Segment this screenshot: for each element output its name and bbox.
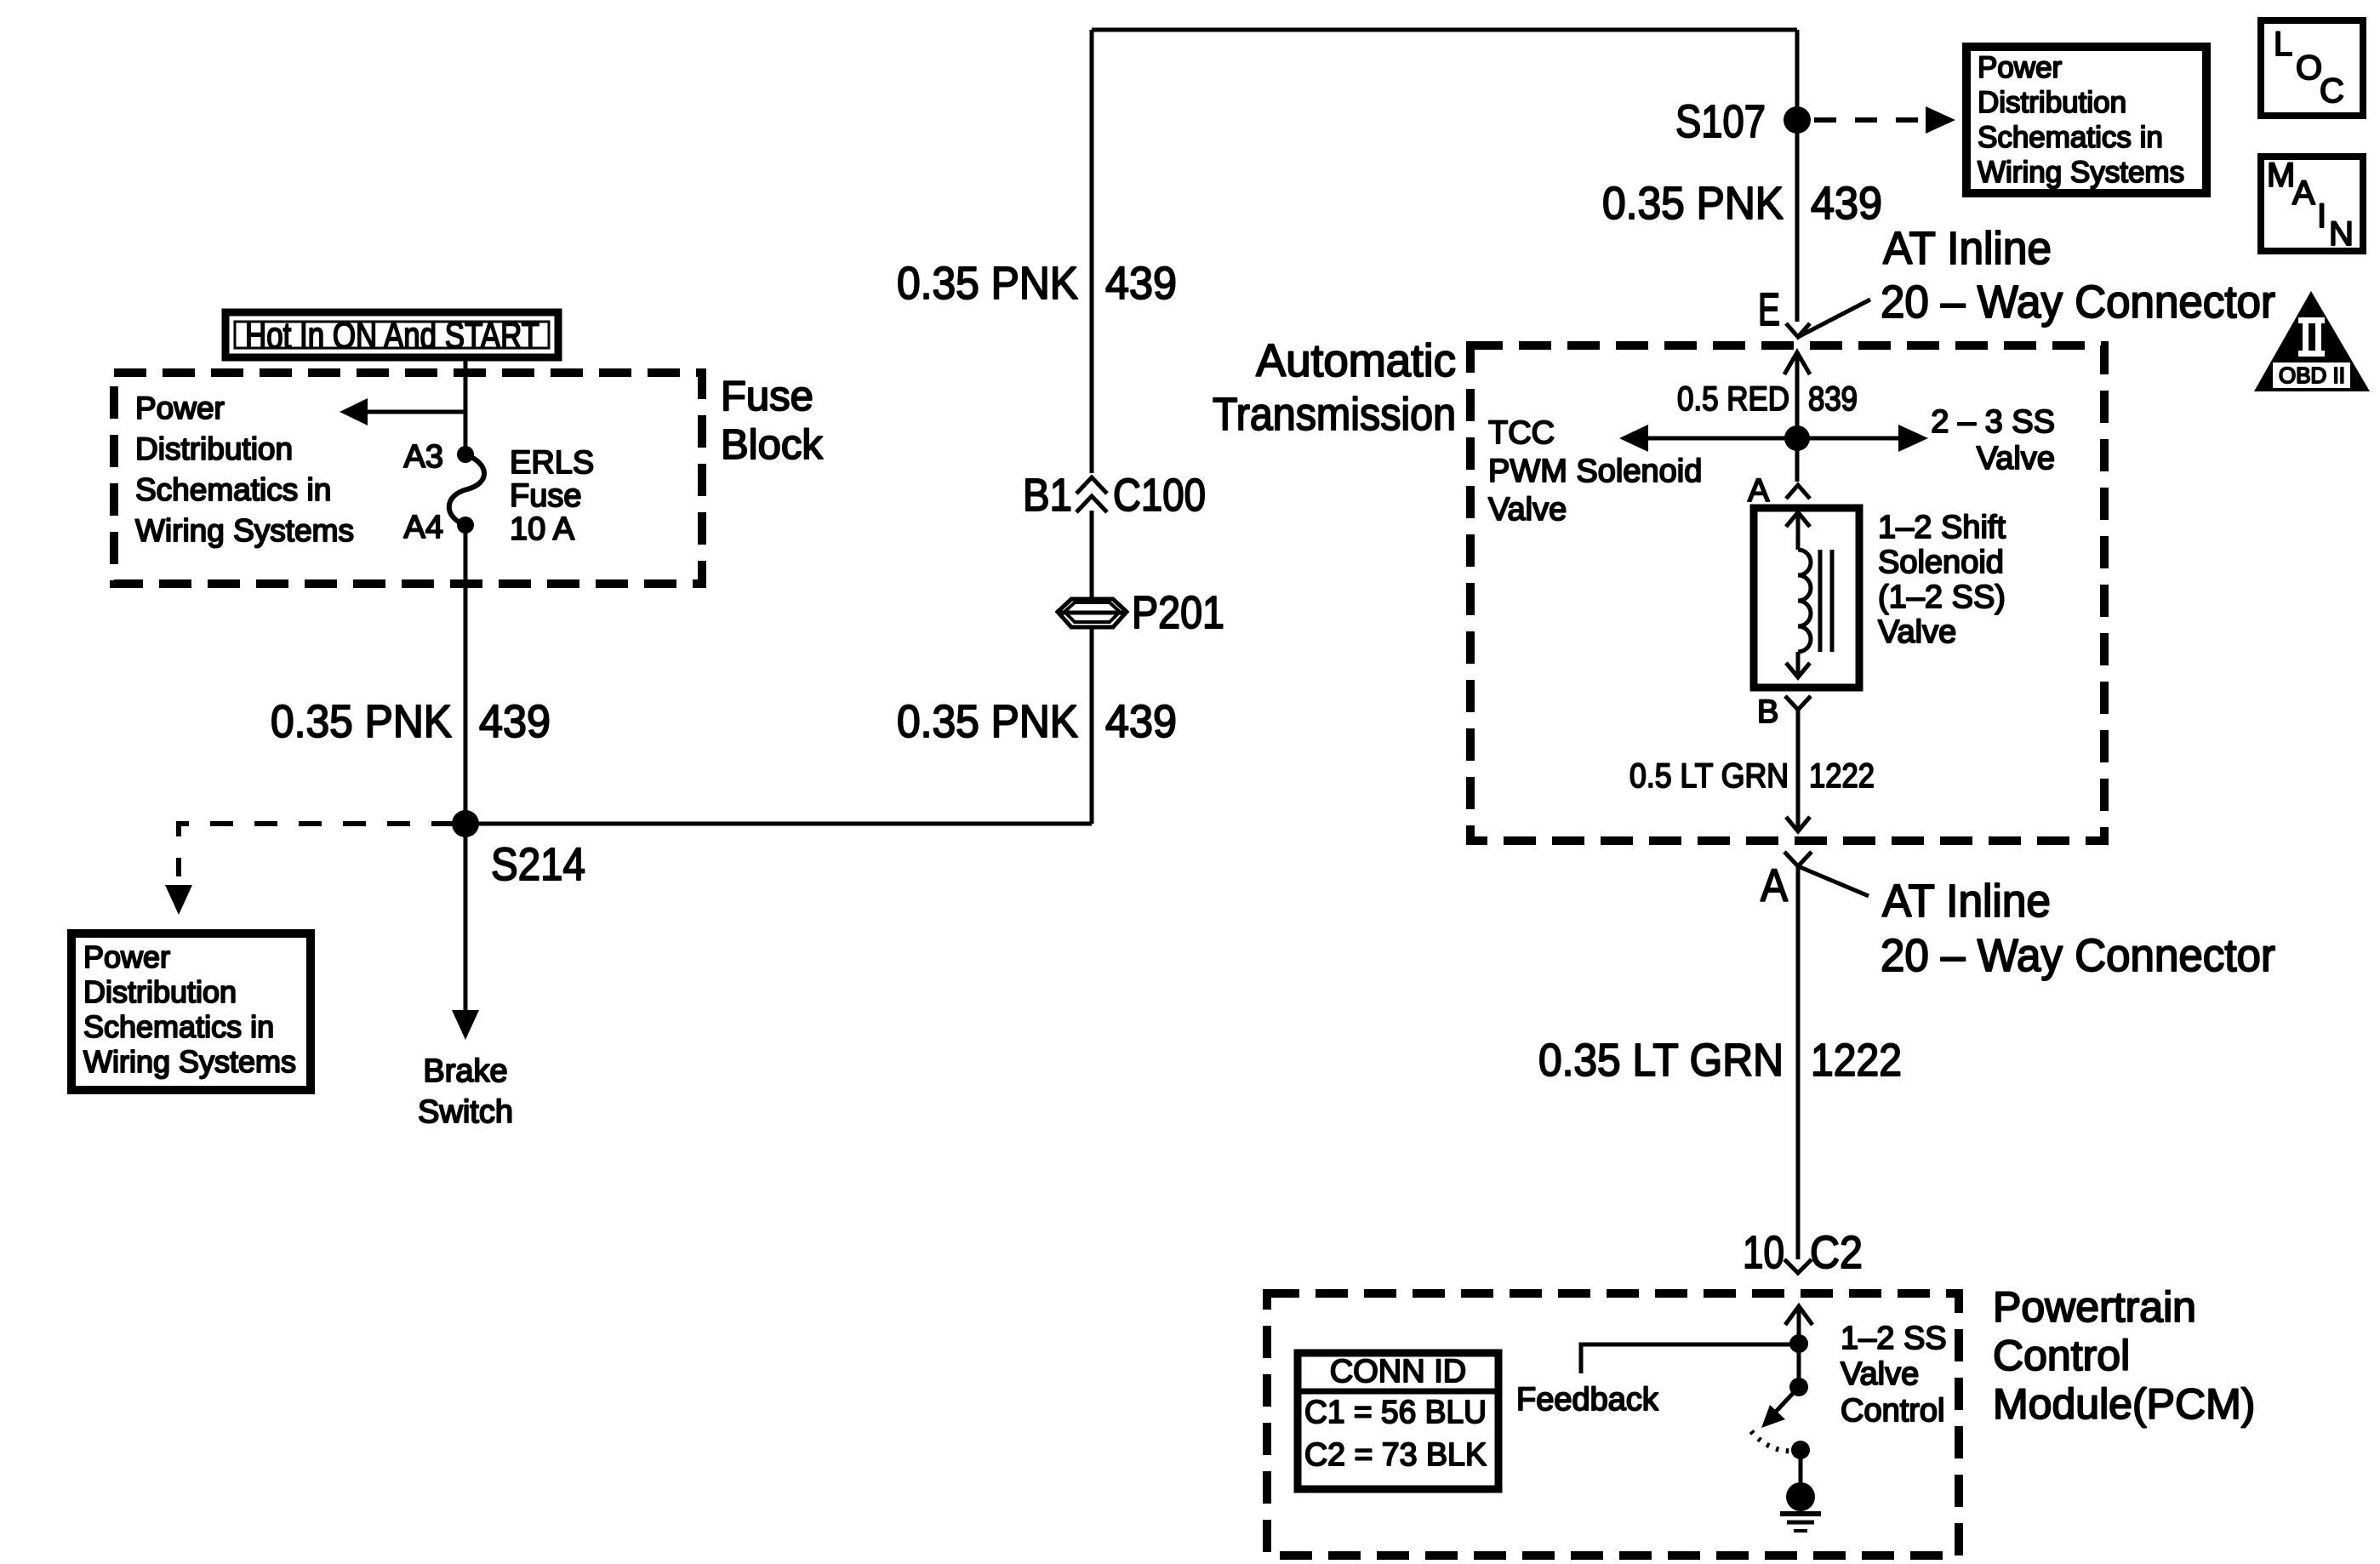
leader arrowhead right [1926, 106, 1955, 134]
svg-text:439: 439 [1811, 178, 1882, 229]
wire from Hot box down to fuse A3 [464, 357, 468, 454]
svg-text:C2 = 73 BLK: C2 = 73 BLK [1304, 1437, 1487, 1473]
svg-text:0.5 RED: 0.5 RED [1677, 380, 1789, 418]
MAIN reference box [2261, 157, 2363, 253]
wire from pin A down to PCM pin 10 [1796, 866, 1801, 1259]
svg-text:0.35 PNK: 0.35 PNK [271, 696, 452, 747]
switch travel dotted arc [1751, 1431, 1797, 1451]
wire S214 down to brake switch [464, 824, 468, 1013]
svg-text:0.5 LT GRN: 0.5 LT GRN [1629, 757, 1789, 795]
grommet P201 symbol [1058, 599, 1127, 627]
splice node S107 [1784, 106, 1811, 134]
connector pin 10 C2 chevron [1784, 1259, 1812, 1273]
svg-text:I: I [2317, 197, 2326, 235]
svg-text:C1 = 56 BLU: C1 = 56 BLU [1304, 1395, 1487, 1430]
1-2 shift solenoid box [1754, 508, 1859, 688]
svg-text:A: A [2292, 174, 2315, 212]
svg-text:P201: P201 [1132, 587, 1224, 638]
svg-text:A: A [1761, 860, 1788, 911]
ground symbol [1780, 1514, 1821, 1531]
switch wire to pivot dot [1797, 1344, 1801, 1387]
solenoid internal arrow and coil [1786, 512, 1811, 678]
svg-text:A: A [1748, 473, 1770, 509]
wire from C100 down to grommet P201 [1090, 511, 1094, 598]
svg-text:C2: C2 [1810, 1227, 1863, 1278]
svg-text:O: O [2296, 49, 2322, 87]
wire arrow up to pin 10 inside PCM [1785, 1305, 1812, 1344]
svg-text:1222: 1222 [1811, 1035, 1902, 1086]
svg-text:CONN ID: CONN ID [1330, 1354, 1466, 1390]
junction node (solenoid feed) [1784, 425, 1810, 451]
leader line from pin E to AT Inline label [1798, 300, 1870, 337]
leader line from pin A to AT Inline label [1798, 866, 1869, 896]
svg-text:L: L [2274, 26, 2292, 63]
svg-text:Transmission: Transmission [1213, 389, 1456, 440]
splice node S214 [452, 810, 479, 837]
wire arrow up to pin E inside box [1784, 351, 1810, 438]
arrowhead to brake switch [452, 1010, 479, 1040]
solenoid pin A chevron [1786, 485, 1810, 499]
solenoid core lines [1820, 550, 1832, 652]
svg-text:B: B [1757, 694, 1778, 730]
switch contact dot [1791, 1441, 1810, 1459]
svg-text:0.35 PNK: 0.35 PNK [897, 258, 1078, 309]
solenoid pin B chevron [1785, 696, 1811, 710]
wire S214 horizontal to middle vertical [465, 822, 1092, 826]
svg-text:20 – Way Connector: 20 – Way Connector [1881, 930, 2275, 981]
note box Power Distribution (bottom left) [71, 933, 311, 1090]
svg-text:OBD II: OBD II [2279, 362, 2345, 388]
switch pivot dot [1789, 1378, 1808, 1396]
wire from pin B down with arrow to box edge [1786, 710, 1810, 831]
svg-text:C: C [2320, 72, 2344, 110]
svg-text:C100: C100 [1113, 470, 1206, 521]
svg-text:B1: B1 [1023, 470, 1072, 521]
wire from A4 down to S214 [464, 525, 468, 824]
LOC reference box [2261, 20, 2363, 116]
wire from P201 down to S214 feed [1090, 628, 1094, 824]
svg-text:Automatic: Automatic [1256, 335, 1456, 386]
svg-text:439: 439 [1105, 258, 1177, 309]
svg-text:A4: A4 [404, 510, 443, 545]
switch node dot (top) [1789, 1334, 1808, 1353]
CONN ID table [1294, 1353, 1502, 1489]
leader arrow to TCC PWM Solenoid Valve [1619, 425, 1797, 452]
svg-text:S214: S214 [491, 839, 585, 890]
leader arrow to 2-3 SS Valve [1797, 425, 1928, 452]
dashed leader from S214 to note box [179, 824, 454, 876]
svg-text:20 – Way Connector: 20 – Way Connector [1881, 277, 2275, 328]
wire from contact to ground [1799, 1450, 1803, 1489]
svg-text:AT Inline: AT Inline [1882, 876, 2051, 927]
svg-text:AT Inline: AT Inline [1883, 223, 2052, 274]
dashed leader from S107 to note box [1814, 117, 1925, 123]
svg-text:E: E [1758, 284, 1780, 335]
svg-text:439: 439 [479, 696, 551, 747]
svg-text:Hot In ON And START: Hot In ON And START [245, 315, 539, 357]
svg-text:839: 839 [1808, 380, 1858, 418]
switch blade with arrowhead [1761, 1387, 1799, 1428]
svg-text:0.35 PNK: 0.35 PNK [1602, 178, 1784, 229]
svg-text:1222: 1222 [1809, 757, 1875, 795]
ground terminal dot [1786, 1482, 1815, 1511]
svg-text:A3: A3 [404, 439, 443, 475]
OBD II triangle icon [2254, 291, 2370, 391]
pin A3 terminal dot [457, 446, 474, 463]
fuse ERLS element (S-curve) [449, 454, 484, 525]
wire middle vertical from top feed down to B1 [1090, 30, 1094, 473]
leader arrowhead down [165, 885, 192, 915]
note box Power Distribution (top right) [1966, 47, 2206, 193]
connector C100 pin B1 (inline connector symbol) [1076, 477, 1107, 512]
svg-text:439: 439 [1105, 696, 1177, 747]
svg-text:10: 10 [1743, 1227, 1784, 1278]
connector pin E chevron [1786, 323, 1810, 337]
feedback tap line [1581, 1344, 1799, 1373]
leader arrow to Power Distribution note (left) [340, 398, 465, 425]
label box "Hot In ON And START" [225, 312, 558, 357]
wire from junction down to solenoid pin A [1795, 438, 1800, 482]
svg-text:M: M [2267, 157, 2295, 194]
wire top feed horizontal [1092, 28, 1797, 32]
pin A4 terminal dot [457, 517, 474, 534]
connector pin A chevron (AT inline 20-way) [1784, 852, 1812, 866]
Automatic Transmission dashed box [1470, 345, 2104, 841]
wire right vertical from top feed to pin E [1795, 30, 1800, 322]
svg-text:0.35 PNK: 0.35 PNK [897, 696, 1078, 747]
Powertrain Control Module dashed box [1267, 1293, 1959, 1555]
fuse block dashed box [114, 373, 702, 584]
svg-text:0.35 LT GRN: 0.35 LT GRN [1538, 1035, 1784, 1086]
svg-text:Feedback: Feedback [1516, 1382, 1659, 1418]
svg-text:S107: S107 [1675, 96, 1766, 147]
svg-text:N: N [2329, 215, 2354, 253]
